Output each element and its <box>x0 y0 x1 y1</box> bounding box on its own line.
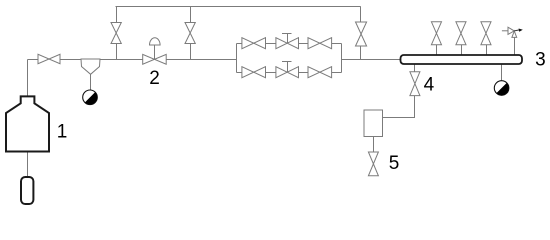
valve manifold inlet C (vertical) <box>481 22 491 45</box>
relief valve body <box>508 27 517 37</box>
wire gauge stem left <box>90 74 92 90</box>
wire vent branch right drop <box>360 7 362 60</box>
needle stem upper <box>282 34 292 44</box>
gauge right outline <box>494 81 509 96</box>
regulator 2 body <box>143 54 167 64</box>
valve vent middle (vertical) <box>185 23 195 44</box>
wire upper branch <box>237 43 342 45</box>
valve 4 (vertical) <box>410 72 420 96</box>
wire valve 4 to box <box>383 96 415 118</box>
wire main line <box>28 59 401 61</box>
wire top header <box>116 6 361 8</box>
valve upper branch 2 (needle) <box>276 38 299 49</box>
sample box <box>364 110 383 137</box>
svg-text:1: 1 <box>57 121 68 142</box>
manifold 3 <box>401 55 523 64</box>
valve manifold inlet A (vertical) <box>431 22 441 45</box>
valve shutoff at tank outlet <box>38 54 60 63</box>
filter funnel <box>81 59 100 74</box>
wire vent branch left drop <box>116 7 118 60</box>
gauge right black half <box>496 83 508 95</box>
svg-text:5: 5 <box>389 153 400 174</box>
tank 1 capsule <box>21 177 33 204</box>
wire box to valve 5 <box>373 137 375 153</box>
valve upper branch 3 <box>308 38 332 49</box>
wire parallel header left <box>236 44 238 73</box>
wire manifold inlet stems <box>437 37 515 55</box>
wire gauge stem right <box>501 64 503 81</box>
valve manifold inlet B (vertical) <box>456 22 466 45</box>
relief valve arrow <box>514 30 519 31</box>
relief valve arrowhead <box>519 29 523 32</box>
wire cylinder riser <box>27 60 29 178</box>
svg-text:2: 2 <box>149 68 160 89</box>
svg-text:4: 4 <box>424 75 435 96</box>
valve vent left (vertical) <box>111 23 121 44</box>
needle stem lower <box>282 62 292 73</box>
wire relief stub <box>502 30 508 32</box>
wire vent branch middle drop <box>190 7 192 60</box>
tank 1 body <box>6 96 49 151</box>
wire valve 4 stem <box>414 64 416 72</box>
valve upper branch 1 <box>242 38 266 49</box>
wire lower branch <box>237 72 342 74</box>
valve lower branch 2 (needle) <box>276 67 299 78</box>
valve 5 (vertical) <box>368 152 378 176</box>
valve vent right (vertical) <box>356 22 367 46</box>
svg-text:3: 3 <box>535 49 546 70</box>
gauge left outline <box>83 90 98 105</box>
regulator 2 dome actuator <box>150 38 161 59</box>
gauge left black half <box>85 92 97 104</box>
wire parallel header right <box>341 44 343 73</box>
valve lower branch 1 <box>242 67 266 78</box>
valve lower branch 3 <box>308 67 332 78</box>
